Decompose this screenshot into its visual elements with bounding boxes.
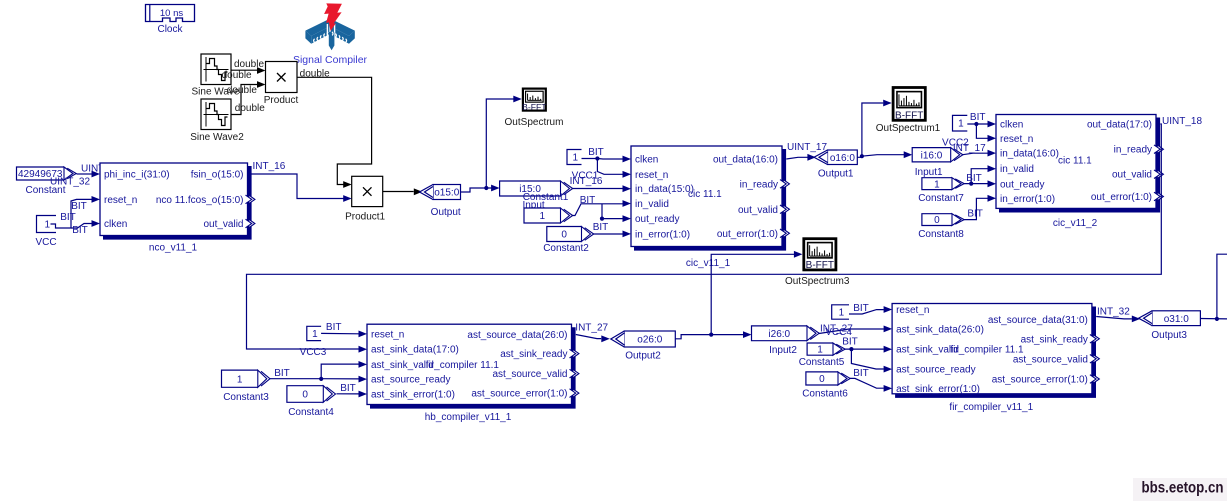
svg-text:BIT: BIT bbox=[60, 212, 76, 223]
label VCC4 bbox=[825, 327, 852, 338]
label Product bbox=[264, 95, 299, 106]
svg-text:1: 1 bbox=[312, 329, 318, 340]
label VCC2 bbox=[942, 137, 969, 148]
svg-text:clken: clken bbox=[1000, 120, 1023, 131]
svg-text:double: double bbox=[235, 103, 265, 114]
multiplier Product bbox=[266, 62, 298, 93]
svg-text:1: 1 bbox=[237, 374, 243, 385]
svg-text:BIT: BIT bbox=[72, 225, 88, 236]
output Output3 bbox=[1139, 311, 1201, 326]
svg-text:bbs.eetop.cn: bbs.eetop.cn bbox=[1142, 480, 1224, 497]
wire VCC3 to hb reset_n bbox=[321, 331, 367, 338]
label BIT constant8 bbox=[967, 208, 983, 219]
wire branch to OutSpectrum1 bbox=[862, 100, 892, 157]
svg-text:BIT: BIT bbox=[326, 322, 342, 333]
svg-text:fir_compiler_v11_1: fir_compiler_v11_1 bbox=[949, 402, 1033, 413]
svg-text:0: 0 bbox=[561, 230, 567, 241]
svg-text:i16:0: i16:0 bbox=[921, 150, 943, 161]
svg-text:Clock: Clock bbox=[157, 24, 183, 35]
svg-text:VCC3: VCC3 bbox=[300, 347, 327, 358]
svg-text:double: double bbox=[222, 70, 252, 81]
svg-text:BIT: BIT bbox=[274, 368, 290, 379]
scope OutSpectrum bbox=[522, 89, 547, 113]
svg-text:out_ready: out_ready bbox=[1000, 179, 1044, 190]
svg-text:Constant1: Constant1 bbox=[523, 192, 569, 203]
label BIT constant7 bbox=[966, 173, 982, 184]
label BIT constant6 bbox=[853, 368, 869, 379]
svg-text:ast_source_error(1:0): ast_source_error(1:0) bbox=[992, 375, 1088, 386]
svg-text:Constant4: Constant4 bbox=[288, 407, 334, 418]
svg-text:INT_32: INT_32 bbox=[1097, 306, 1130, 317]
wire fir ast_source_data to Output3 bbox=[1096, 316, 1140, 323]
constant Constant7 bbox=[922, 178, 964, 191]
label BIT vcc2 bbox=[970, 112, 986, 123]
label Sine Wave bbox=[192, 87, 240, 98]
block nco_v11_1 bbox=[100, 163, 255, 254]
label Clock bbox=[157, 24, 183, 35]
source block Sine Wave bbox=[201, 54, 231, 85]
label double 3 bbox=[227, 85, 257, 96]
svg-text:Output1: Output1 bbox=[818, 168, 854, 179]
label UINT_32 b bbox=[50, 177, 90, 188]
svg-text:UINT_17: UINT_17 bbox=[787, 142, 827, 153]
svg-text:double: double bbox=[300, 69, 330, 80]
svg-text:reset_n: reset_n bbox=[1000, 134, 1033, 145]
block cic_v11_1 bbox=[631, 146, 789, 269]
label BIT vcc4 bbox=[853, 303, 869, 314]
constant Constant bbox=[17, 167, 77, 180]
svg-text:cic_v11_2: cic_v11_2 bbox=[1053, 218, 1098, 229]
svg-text:ast_source_ready: ast_source_ready bbox=[371, 375, 451, 386]
wire Constant1 to cic1 in_valid/out_ready bbox=[573, 200, 632, 222]
block hb_compiler_v11_1 bbox=[367, 324, 579, 423]
wire Output3 to edge bbox=[1200, 317, 1227, 321]
label Sine Wave2 bbox=[190, 132, 244, 143]
svg-text:BIT: BIT bbox=[593, 222, 609, 233]
svg-text:1: 1 bbox=[572, 153, 578, 164]
svg-text:out_valid: out_valid bbox=[1112, 170, 1152, 181]
svg-text:10 ns: 10 ns bbox=[160, 8, 183, 19]
svg-text:reset_n: reset_n bbox=[371, 329, 404, 340]
label Constant bbox=[25, 185, 65, 196]
constant VCC3 bbox=[307, 326, 321, 340]
svg-text:out_data(17:0): out_data(17:0) bbox=[1087, 120, 1152, 131]
label double 1 bbox=[234, 59, 264, 70]
svg-text:ast_source_valid: ast_source_valid bbox=[492, 369, 567, 380]
svg-text:fir_compiler 11.1: fir_compiler 11.1 bbox=[950, 345, 1024, 356]
svg-text:Product1: Product1 bbox=[345, 211, 385, 222]
svg-text:ast_source_valid: ast_source_valid bbox=[1013, 354, 1088, 365]
constant VCC2 bbox=[953, 115, 968, 131]
label BIT vcc bbox=[60, 212, 76, 223]
wire Constant4 to hb ast_sink_error bbox=[337, 391, 368, 398]
svg-text:Constant2: Constant2 bbox=[543, 243, 589, 254]
constant VCC4 bbox=[832, 305, 849, 319]
svg-text:nco 11.fcos_o(15:0): nco 11.fcos_o(15:0) bbox=[156, 195, 244, 206]
svg-text:cic_v11_1: cic_v11_1 bbox=[686, 258, 731, 269]
label OutSpectrum3 bbox=[785, 276, 850, 287]
svg-text:reset_n: reset_n bbox=[104, 195, 137, 206]
svg-text:Constant7: Constant7 bbox=[918, 193, 964, 204]
svg-text:B-FFT: B-FFT bbox=[522, 102, 547, 112]
svg-text:cic 11.1: cic 11.1 bbox=[1058, 156, 1092, 167]
svg-text:out_error(1:0): out_error(1:0) bbox=[1091, 192, 1152, 203]
svg-text:0: 0 bbox=[302, 390, 308, 401]
block cic_v11_2 bbox=[996, 115, 1163, 230]
input Input bbox=[500, 181, 573, 196]
svg-text:1: 1 bbox=[934, 179, 940, 190]
scope OutSpectrum3 bbox=[804, 239, 836, 271]
wire nco fsin_o to Product1 bbox=[252, 174, 352, 202]
svg-text:phi_inc_i(31:0): phi_inc_i(31:0) bbox=[104, 170, 170, 181]
label BIT reset bbox=[71, 201, 87, 212]
svg-text:BIT: BIT bbox=[966, 173, 982, 184]
label Constant3 bbox=[223, 392, 269, 403]
svg-text:reset_n: reset_n bbox=[635, 170, 668, 181]
svg-text:BIT: BIT bbox=[842, 336, 858, 347]
label double 2 bbox=[222, 70, 252, 81]
label INT_16 b bbox=[570, 176, 603, 187]
label Constant5 bbox=[799, 357, 845, 368]
svg-text:ast_source_data(31:0): ast_source_data(31:0) bbox=[988, 315, 1088, 326]
svg-text:hb_compiler_v11_1: hb_compiler_v11_1 bbox=[425, 412, 512, 423]
label INT_27 bbox=[575, 323, 608, 334]
svg-text:in_error(1:0): in_error(1:0) bbox=[635, 229, 690, 240]
wire Input1 to cic2 in_data bbox=[963, 150, 996, 157]
svg-text:ast_source_data(26:0): ast_source_data(26:0) bbox=[467, 330, 567, 341]
svg-text:Product: Product bbox=[264, 95, 299, 106]
wire Constant7 to cic2 in_valid/out_ready bbox=[964, 165, 996, 187]
svg-text:clken: clken bbox=[635, 155, 658, 166]
icon Signal Compiler bbox=[305, 3, 354, 50]
svg-text:INT_27: INT_27 bbox=[575, 323, 608, 334]
wire Sine Wave2 to Product in2 bbox=[231, 81, 265, 114]
constant Constant4 bbox=[287, 386, 336, 403]
output Output bbox=[420, 185, 461, 200]
svg-text:ast_sink_data(17:0): ast_sink_data(17:0) bbox=[371, 345, 459, 356]
wire cic1 out_data to Output1 bbox=[786, 154, 816, 161]
svg-text:BIT: BIT bbox=[970, 112, 986, 123]
label Input bbox=[522, 200, 544, 211]
label INT_27 b bbox=[820, 324, 853, 335]
svg-text:ast_sink_ready: ast_sink_ready bbox=[500, 349, 567, 360]
svg-text:Input2: Input2 bbox=[769, 345, 797, 356]
label double 4 bbox=[235, 103, 265, 114]
label VCC bbox=[35, 237, 56, 248]
svg-text:fsin_o(15:0): fsin_o(15:0) bbox=[191, 170, 244, 181]
label BIT constant2 bbox=[593, 222, 609, 233]
svg-text:1: 1 bbox=[539, 211, 545, 222]
svg-text:Input1: Input1 bbox=[915, 167, 943, 178]
svg-text:double: double bbox=[227, 85, 257, 96]
label UINT_17 bbox=[787, 142, 827, 153]
label OutSpectrum1 bbox=[876, 123, 941, 134]
constant Constant6 bbox=[806, 372, 850, 385]
wire VCC to nco reset_n/clken bbox=[51, 196, 101, 228]
svg-text:in_error(1:0): in_error(1:0) bbox=[1000, 194, 1055, 205]
svg-text:Output2: Output2 bbox=[625, 351, 661, 362]
svg-text:BIT: BIT bbox=[588, 147, 604, 158]
svg-text:o31:0: o31:0 bbox=[1164, 314, 1189, 325]
svg-text:ast_sink_data(26:0): ast_sink_data(26:0) bbox=[896, 324, 984, 335]
svg-text:out_ready: out_ready bbox=[635, 214, 679, 225]
multiplier Product1 bbox=[352, 176, 383, 206]
label UINT_18 bbox=[1162, 116, 1202, 127]
wire cic2 out_data to hb ast_sink_data bbox=[247, 124, 1162, 353]
output Output1 bbox=[814, 150, 857, 165]
svg-text:BIT: BIT bbox=[853, 368, 869, 379]
svg-text:ast_source_error(1:0): ast_source_error(1:0) bbox=[471, 389, 567, 400]
svg-text:BIT: BIT bbox=[580, 195, 596, 206]
constant Constant1 bbox=[524, 208, 573, 223]
svg-text:Output3: Output3 bbox=[1151, 330, 1187, 341]
label Constant4 bbox=[288, 407, 334, 418]
scope OutSpectrum1 bbox=[893, 88, 925, 122]
output Output2 bbox=[611, 331, 676, 347]
svg-text:in_ready: in_ready bbox=[740, 179, 778, 190]
wire VCC1 to cic1 clken/reset_n bbox=[582, 156, 632, 178]
svg-text:i26:0: i26:0 bbox=[768, 329, 790, 340]
svg-text:o26:0: o26:0 bbox=[637, 335, 662, 346]
svg-text:in_data(15:0): in_data(15:0) bbox=[635, 184, 694, 195]
label INT_17 bbox=[953, 143, 986, 154]
clock block Clock bbox=[146, 5, 195, 22]
svg-text:UINT_32: UINT_32 bbox=[50, 177, 90, 188]
wire branch to OutSpectrum3 bbox=[711, 251, 802, 335]
svg-text:BIT: BIT bbox=[71, 201, 87, 212]
wire Constant5 to fir valid/ready bbox=[845, 346, 892, 373]
wire VCC2 to cic2 clken/reset_n bbox=[967, 121, 996, 142]
label BIT clken bbox=[72, 225, 88, 236]
wire Constant to nco phi_inc_i bbox=[77, 171, 101, 178]
wire Output to Input bbox=[461, 185, 500, 192]
svg-text:in_valid: in_valid bbox=[635, 199, 669, 210]
label UINT_32 a bbox=[81, 163, 121, 174]
svg-text:1: 1 bbox=[44, 220, 50, 231]
label BIT constant5 bbox=[842, 336, 858, 347]
svg-text:0: 0 bbox=[819, 374, 825, 385]
label BIT constant3 bbox=[274, 368, 290, 379]
label VCC1 bbox=[572, 170, 599, 181]
svg-text:Constant6: Constant6 bbox=[802, 388, 848, 399]
label Input1 bbox=[915, 167, 943, 178]
wire Output1 to Input1 bbox=[857, 151, 912, 158]
wire Constant8 to cic2 in_error bbox=[964, 195, 996, 220]
constant VCC1 bbox=[567, 150, 582, 165]
svg-text:VCC2: VCC2 bbox=[942, 137, 969, 148]
wire Output2 to Input2 bbox=[675, 331, 751, 339]
wire Product to Product1 bbox=[297, 77, 372, 188]
wire hb ast_source_data to Output2 bbox=[576, 335, 610, 343]
label INT_16 bbox=[253, 161, 286, 172]
svg-text:BIT: BIT bbox=[340, 383, 356, 394]
wire branch to OutSpectrum bbox=[486, 96, 522, 188]
label OutSpectrum bbox=[505, 117, 564, 128]
svg-text:UINT_18: UINT_18 bbox=[1162, 116, 1202, 127]
svg-text:fir_compiler 11.1: fir_compiler 11.1 bbox=[426, 360, 500, 371]
svg-text:reset_n: reset_n bbox=[896, 305, 929, 316]
label Output bbox=[431, 207, 461, 218]
svg-text:Output: Output bbox=[431, 207, 461, 218]
label Output2 bbox=[625, 351, 661, 362]
label Product1 bbox=[345, 211, 385, 222]
wire Input to cic1 in_data bbox=[573, 185, 632, 192]
label Constant6 bbox=[802, 388, 848, 399]
wire Product1 to Output bbox=[383, 188, 423, 195]
svg-text:ast_sink_valid: ast_sink_valid bbox=[371, 360, 434, 371]
constant Constant2 bbox=[547, 227, 594, 242]
svg-text:out_valid: out_valid bbox=[203, 219, 243, 230]
svg-text:o16:0: o16:0 bbox=[830, 153, 855, 164]
label Constant8 bbox=[918, 229, 964, 240]
svg-text:Signal Compiler: Signal Compiler bbox=[293, 54, 368, 66]
wire Input2 to fir ast_sink_data bbox=[819, 326, 892, 334]
wire Constant6 to fir ast_sink_error bbox=[850, 378, 892, 391]
label Output1 bbox=[818, 168, 854, 179]
svg-text:1: 1 bbox=[817, 345, 823, 356]
svg-text:OutSpectrum3: OutSpectrum3 bbox=[785, 276, 850, 287]
wire edge up bbox=[1217, 254, 1227, 319]
wire VCC4 to fir reset_n bbox=[849, 306, 892, 314]
label Signal Compiler bbox=[293, 54, 368, 66]
svg-text:clken: clken bbox=[104, 219, 127, 230]
source block Sine Wave2 bbox=[201, 99, 231, 130]
constant Constant8 bbox=[922, 214, 964, 227]
svg-text:ast_source_ready: ast_source_ready bbox=[896, 365, 976, 376]
svg-text:Constant5: Constant5 bbox=[799, 357, 845, 368]
label BIT vcc3 bbox=[326, 322, 342, 333]
label Constant1 bbox=[523, 192, 569, 203]
block fir_compiler_v11_1 bbox=[892, 304, 1099, 414]
svg-text:o15:0: o15:0 bbox=[434, 188, 459, 199]
svg-text:in_valid: in_valid bbox=[1000, 164, 1034, 175]
wire Sine Wave to Product in1 bbox=[231, 67, 265, 74]
svg-text:1: 1 bbox=[839, 308, 845, 319]
wire Constant3 to hb valid/ready bbox=[270, 361, 367, 383]
svg-text:BIT: BIT bbox=[967, 208, 983, 219]
svg-text:OutSpectrum: OutSpectrum bbox=[505, 117, 564, 128]
svg-text:VCC1: VCC1 bbox=[572, 170, 599, 181]
label Input2 bbox=[769, 345, 797, 356]
label BIT constant4 bbox=[340, 383, 356, 394]
svg-text:B-FFT: B-FFT bbox=[806, 260, 834, 271]
svg-text:out_valid: out_valid bbox=[738, 205, 778, 216]
svg-text:Sine Wave2: Sine Wave2 bbox=[190, 132, 244, 143]
svg-text:in_data(16:0): in_data(16:0) bbox=[1000, 149, 1059, 160]
svg-text:1: 1 bbox=[958, 119, 964, 130]
label VCC3 bbox=[300, 347, 327, 358]
svg-text:ast_sink_ready: ast_sink_ready bbox=[1021, 334, 1088, 345]
svg-text:Constant3: Constant3 bbox=[223, 392, 269, 403]
label double out bbox=[300, 69, 330, 80]
svg-text:double: double bbox=[234, 59, 264, 70]
svg-text:VCC: VCC bbox=[35, 237, 56, 248]
svg-text:cic 11.1: cic 11.1 bbox=[688, 189, 722, 200]
svg-text:BIT: BIT bbox=[853, 303, 869, 314]
label BIT vcc1 bbox=[588, 147, 604, 158]
label BIT constant1 bbox=[580, 195, 596, 206]
svg-text:OutSpectrum1: OutSpectrum1 bbox=[876, 123, 941, 134]
svg-text:out_error(1:0): out_error(1:0) bbox=[717, 229, 778, 240]
svg-text:ast_sink_error(1:0): ast_sink_error(1:0) bbox=[896, 384, 980, 395]
input Input2 bbox=[752, 326, 820, 341]
label INT_32 bbox=[1097, 306, 1130, 317]
svg-text:0: 0 bbox=[934, 215, 940, 226]
svg-text:INT_16: INT_16 bbox=[253, 161, 286, 172]
constant Constant3 bbox=[222, 370, 271, 387]
constant VCC bbox=[37, 216, 57, 233]
svg-text:nco_v11_1: nco_v11_1 bbox=[149, 243, 198, 254]
input Input1 bbox=[912, 148, 963, 162]
label Constant2 bbox=[543, 243, 589, 254]
svg-text:Constant8: Constant8 bbox=[918, 229, 964, 240]
svg-text:ast_sink_error(1:0): ast_sink_error(1:0) bbox=[371, 390, 455, 401]
svg-text:B-FFT: B-FFT bbox=[895, 111, 923, 122]
svg-text:out_data(16:0): out_data(16:0) bbox=[713, 155, 778, 166]
watermark bbs.eetop.cn bbox=[1133, 478, 1227, 501]
svg-text:in_ready: in_ready bbox=[1114, 145, 1152, 156]
wire Constant2 to cic1 in_error bbox=[594, 231, 632, 238]
label Output3 bbox=[1151, 330, 1187, 341]
constant Constant5 bbox=[807, 343, 845, 356]
label Constant7 bbox=[918, 193, 964, 204]
